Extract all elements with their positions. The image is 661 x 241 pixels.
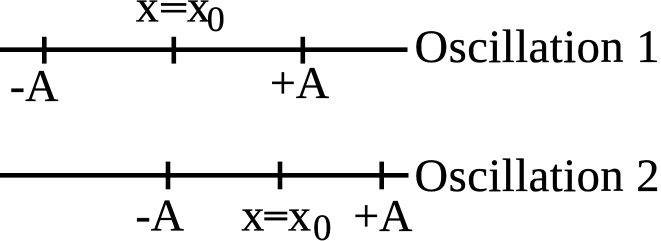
svg-text:x: x [288,190,311,241]
node x=x0 tick (oscillation 2) [278,162,283,190]
node -A tick (oscillation 1) [42,37,47,64]
svg-text:x: x [136,0,159,32]
node x=x0 tick (oscillation 1) [172,37,177,64]
svg-text:x: x [241,190,264,241]
svg-text:Oscillation 1: Oscillation 1 [415,22,660,73]
label x=x0 (oscillation 1) [136,0,225,39]
svg-text:-A: -A [135,189,184,240]
node +A tick (oscillation 2) [379,162,384,190]
svg-text:0: 0 [313,208,332,241]
svg-text:+A: +A [353,190,412,241]
node -A tick (oscillation 2) [166,162,171,190]
wire: oscillation 2 axis line [0,173,409,178]
label x=x0 (oscillation 2) [241,190,331,241]
svg-text:0: 0 [207,0,225,39]
svg-text:Oscillation 2: Oscillation 2 [415,151,660,202]
node +A tick (oscillation 1) [300,37,305,64]
svg-text:+A: +A [270,57,329,108]
svg-text:-A: -A [10,60,59,111]
wire: oscillation 1 axis line [0,47,408,52]
